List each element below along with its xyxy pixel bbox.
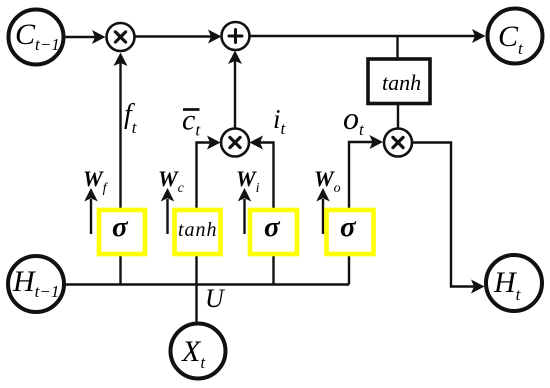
svg-text:it: it: [273, 104, 287, 138]
plus node P1: [222, 22, 250, 50]
wire H line from Ht-1 across gates: [66, 283, 349, 285]
multiply node M3: [384, 129, 412, 157]
svg-text:Wc: Wc: [158, 166, 185, 196]
wire from M2 up into P1: [228, 51, 242, 129]
arrow W_i: [238, 188, 252, 234]
multiply node M1: [107, 23, 135, 51]
wire Ct-1 to multiply M1: [64, 30, 106, 44]
arrow W_o: [316, 188, 330, 234]
svg-text:σ: σ: [112, 211, 129, 243]
gate B1 sigma: [99, 210, 145, 254]
node Ht: [486, 255, 542, 311]
wire gate B2 down through H line to Xt: [195, 254, 197, 322]
svg-text:Wf: Wf: [83, 166, 109, 196]
svg-text:Wo: Wo: [314, 166, 341, 196]
wire P1 to Ct: [250, 29, 486, 43]
wire o_t from gate B4 up then right into M3: [349, 135, 383, 210]
svg-text:ft: ft: [124, 99, 138, 137]
wire gate B3 down to H line: [272, 254, 274, 285]
arrow W_c: [161, 188, 175, 234]
node Ht-1: [8, 256, 64, 312]
arrow W_f: [84, 188, 98, 234]
gate B4 sigma: [327, 210, 374, 254]
svg-text:Wi: Wi: [236, 166, 260, 196]
wire i_t from gate B3 up then left into M2: [250, 136, 274, 211]
svg-text:ot: ot: [343, 100, 365, 139]
wire M1 to plus P1: [135, 30, 222, 44]
svg-text:U: U: [205, 284, 226, 313]
wire M3 right, down, into Ht: [413, 143, 485, 294]
wire tanh box down to M3: [397, 104, 399, 129]
gate B2 tanh: [175, 210, 221, 254]
wire f_t from gate B1 up into M1: [114, 53, 128, 211]
multiply node M2: [221, 129, 249, 157]
node Xt: [171, 324, 226, 379]
wire gate B1 down to H line: [119, 254, 121, 285]
svg-text:tanh: tanh: [178, 219, 218, 241]
gate B3 sigma: [250, 210, 297, 254]
label c_t bar: [182, 104, 201, 140]
svg-text:σ: σ: [264, 211, 281, 243]
wire from C line down to tanh box: [396, 36, 398, 59]
node Ct: [488, 9, 543, 64]
wire gate B4 down to H line: [348, 254, 350, 285]
svg-text:σ: σ: [340, 211, 357, 243]
tanh box: [368, 59, 430, 104]
svg-text:tanh: tanh: [382, 70, 421, 95]
node Ct-1: [9, 10, 64, 65]
wire c_t from gate B2 up then right into M2: [197, 136, 221, 211]
